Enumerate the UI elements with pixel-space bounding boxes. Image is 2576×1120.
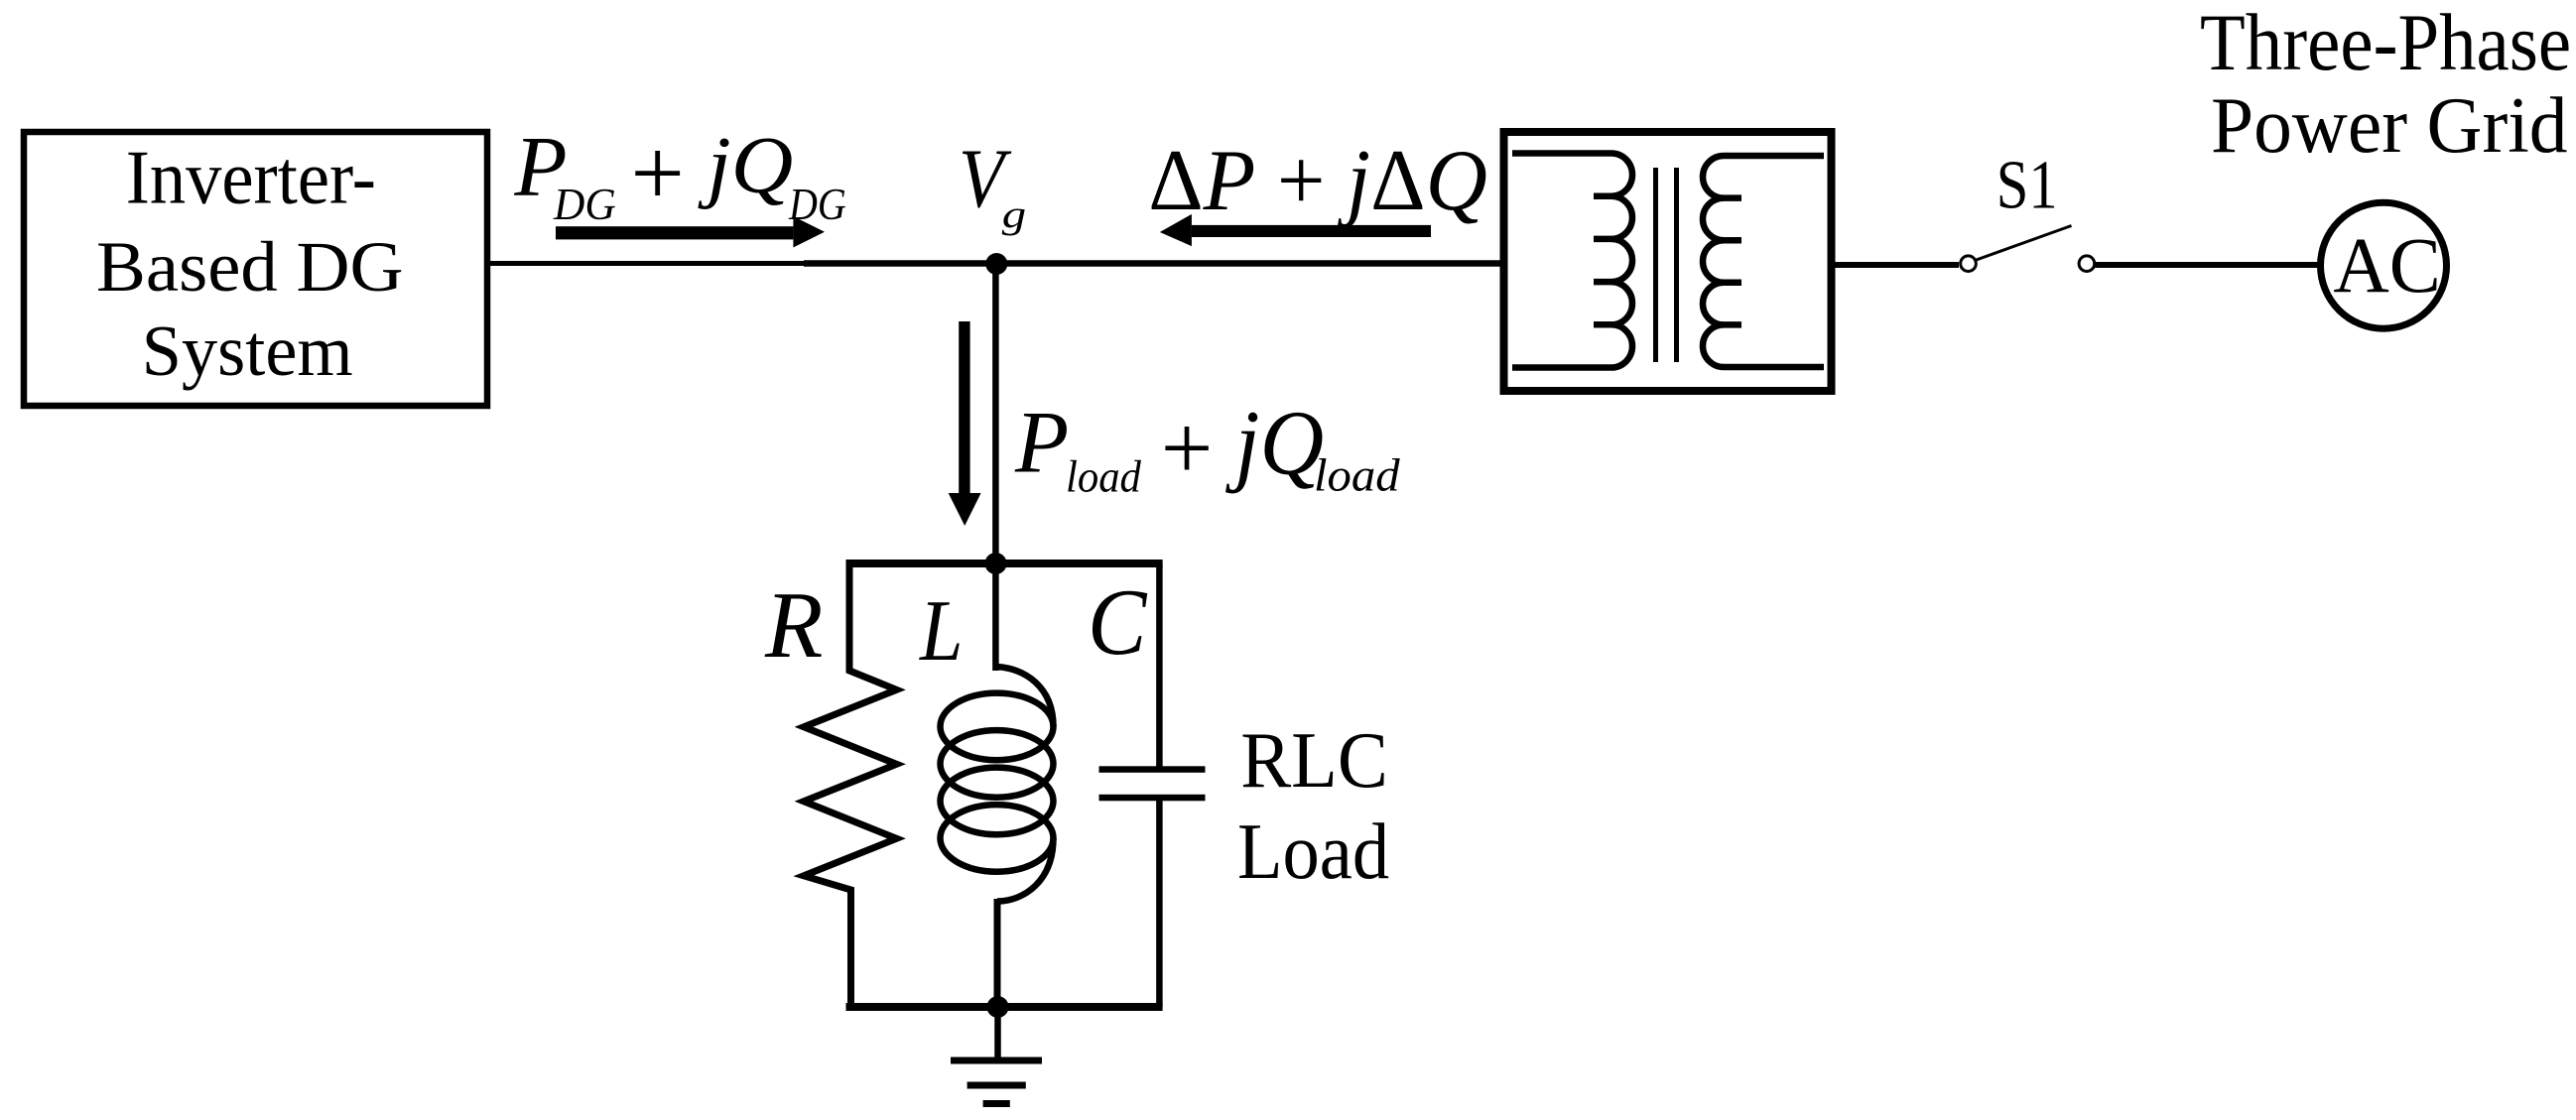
svg-text:System: System: [142, 311, 353, 391]
svg-text:Based DG: Based DG: [96, 226, 404, 307]
svg-text:jQ: jQ: [1225, 393, 1324, 495]
svg-text:RLC: RLC: [1240, 716, 1388, 805]
svg-text:load: load: [1314, 449, 1400, 501]
svg-text:load: load: [1066, 450, 1142, 501]
svg-text:+: +: [631, 120, 685, 226]
svg-text:g: g: [1002, 192, 1026, 236]
svg-text:L: L: [918, 583, 963, 680]
svg-text:P: P: [1014, 395, 1069, 492]
svg-text:Inverter-: Inverter-: [126, 135, 376, 220]
svg-text:Power Grid: Power Grid: [2211, 82, 2568, 170]
svg-text:jQ: jQ: [698, 120, 793, 210]
svg-text:DG: DG: [553, 180, 616, 229]
svg-text:S1: S1: [1996, 147, 2058, 223]
svg-text:Three-Phase: Three-Phase: [2200, 0, 2571, 87]
svg-text:Load: Load: [1237, 808, 1389, 896]
svg-text:+: +: [1161, 397, 1214, 499]
svg-text:R: R: [764, 572, 823, 678]
svg-text:C: C: [1088, 569, 1148, 675]
svg-text:AC: AC: [2333, 222, 2440, 310]
svg-text:ΔP + jΔQ: ΔP + jΔQ: [1148, 133, 1487, 229]
